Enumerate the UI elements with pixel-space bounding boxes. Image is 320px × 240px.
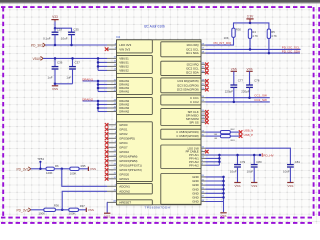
IC sub-box LDO/VIN: [117, 40, 153, 53]
pin DRAIN2 @111.5: [107, 111, 117, 113]
svg-text:VSS: VSS: [251, 184, 257, 188]
node SCL/R4: [249, 48, 252, 51]
wire R5 to SDA: [268, 39, 270, 54]
pin GND @181.0: [201, 180, 206, 182]
svg-text:VSS: VSS: [220, 214, 226, 218]
pin GPIO2: [107, 133, 117, 135]
svg-text:I2C2 SDA: I2C2 SDA: [186, 71, 199, 75]
svg-text:DRAIN2: DRAIN2: [119, 106, 129, 110]
IC sub-box ADCIN: [117, 184, 153, 194]
svg-text:ADCIN2: ADCIN2: [119, 189, 130, 193]
node PD_HV end: [259, 154, 262, 157]
pin I2C2 SDA: [201, 72, 206, 74]
wire row2 segment2: [56, 209, 69, 211]
svg-text:PP CABLE: PP CABLE: [186, 150, 199, 154]
wire VBUS to pin: [43, 57, 107, 59]
svg-text:VSS: VSS: [246, 67, 252, 71]
wire DRAIN1 b4: [98, 91, 107, 93]
svg-text:R30: R30: [236, 28, 241, 32]
top window band: [0, 0, 320, 3]
pin GND @176.9: [201, 176, 206, 178]
svg-text:C37: C37: [75, 60, 81, 64]
node DRAIN2 j1: [97, 100, 100, 103]
capacitor C80 10uF: [253, 155, 255, 165]
svg-text:GPIO10: GPIO10: [119, 150, 129, 154]
resistor R36 100K: [44, 208, 56, 211]
node HV/C79: [236, 154, 239, 157]
wire VBUS vertical bus: [97, 58, 99, 70]
IC sub-box GND: [161, 174, 201, 205]
svg-text:C USB P(GPIO18): C USB P(GPIO18): [176, 134, 198, 138]
svg-text:C78: C78: [254, 79, 260, 83]
svg-text:100K: 100K: [39, 211, 46, 215]
pin I2C1 SCL: [201, 48, 206, 50]
wire DRAIN1 b2: [98, 84, 107, 86]
outer sheet border fragments: [1, 222, 314, 224]
pin GND @189.2: [201, 188, 206, 190]
svg-text:4.7K: 4.7K: [252, 34, 258, 38]
pin GPIO3(HPD): [107, 137, 117, 139]
svg-text:PD_3V3: PD_3V3: [17, 208, 29, 212]
svg-text:GPIO3(HPD): GPIO3(HPD): [119, 136, 135, 140]
svg-text:DRAIN2: DRAIN2: [119, 103, 129, 107]
svg-text:R36: R36: [54, 203, 59, 207]
svg-text:GPIO16(PP EXT1): GPIO16(PP EXT1): [119, 163, 142, 167]
wire row1 segment2: [54, 168, 70, 170]
svg-text:DRAIN2: DRAIN2: [119, 99, 129, 103]
ground VSS below C80: [251, 182, 257, 184]
svg-text:VSS: VSS: [234, 184, 240, 188]
pin I2C3 SDA(GPIO8): [201, 89, 206, 91]
node GND @176.9: [222, 176, 225, 179]
wire GND 3: [206, 184, 224, 186]
pin PP HV2 a: [201, 161, 206, 163]
svg-text:C80: C80: [256, 160, 262, 164]
svg-text:VBUS: VBUS: [33, 57, 42, 61]
resistor R4 4.7K: [248, 29, 251, 39]
svg-text:USB_P: USB_P: [244, 133, 254, 137]
node R36/R37 junction: [61, 209, 64, 212]
ground VSS HRESET: [104, 212, 110, 214]
pin GPIO21: [107, 178, 117, 180]
svg-text:10uF: 10uF: [247, 169, 254, 173]
wire DRAIN1 bus: [97, 81, 99, 92]
svg-text:DRAIN2: DRAIN2: [119, 110, 129, 114]
node GND @193.3: [222, 192, 225, 195]
node R6/R35 junction: [61, 168, 64, 171]
IC sub-box DRAIN2: [117, 98, 153, 115]
pin I2C2 IRQ: [201, 63, 206, 65]
svg-text:0R: 0R: [214, 138, 217, 140]
svg-text:PD_HV: PD_HV: [263, 153, 274, 157]
svg-text:V33: V33: [52, 15, 58, 19]
node DRAIN2 j2: [97, 103, 100, 106]
wire GND 6: [206, 196, 224, 198]
svg-text:GND: GND: [192, 200, 198, 204]
wire C USB N: [206, 131, 221, 133]
wire HV b3: [206, 161, 220, 163]
capacitor C37: [72, 58, 74, 66]
svg-text:SPI SS: SPI SS: [189, 120, 198, 124]
resistor R6 120K: [46, 167, 54, 170]
svg-text:GPIO1: GPIO1: [119, 127, 128, 131]
svg-text:PP HV1: PP HV1: [189, 153, 199, 157]
node HV j3: [218, 161, 221, 164]
wire R30 to IRQ: [206, 37, 234, 45]
wire GND 7: [206, 201, 224, 203]
svg-text:I2C3 SDA(GPIO8): I2C3 SDA(GPIO8): [177, 88, 199, 92]
node HV j2: [218, 157, 221, 160]
node DRAIN1 j1: [97, 80, 100, 83]
svg-text:100K: 100K: [70, 171, 77, 175]
pin DRAIN1 @88.0: [107, 87, 117, 89]
pin DRAIN2 @104.5: [107, 104, 117, 106]
svg-text:1uF: 1uF: [66, 75, 71, 79]
svg-text:PD_I2C_SDA: PD_I2C_SDA: [282, 49, 300, 53]
wire R4 to SCL: [249, 39, 251, 50]
wire caps common: [55, 83, 73, 85]
wire C CC2: [206, 101, 270, 103]
pin VBUS @70.4: [107, 69, 117, 71]
node SDA/R5: [268, 52, 271, 55]
svg-text:PD_3V3: PD_3V3: [31, 44, 43, 48]
IC sub-box CC: [161, 95, 201, 105]
node GND @189.2: [222, 188, 225, 191]
pin PP HV1 b: [201, 157, 206, 159]
svg-text:10K: 10K: [224, 36, 229, 40]
wire R62 to X: [230, 131, 239, 133]
wire VBUS branch 3: [98, 65, 107, 67]
pin GPIO4: [107, 142, 117, 144]
IC sub-box SPI: [161, 109, 201, 126]
pin VBUS @66.4: [107, 65, 117, 67]
pin GND @201.5: [201, 201, 206, 203]
svg-text:D4: D4: [116, 35, 120, 39]
IC sub-box C USB: [161, 129, 201, 139]
wire PP HV main: [206, 154, 261, 156]
pin GND @185.1: [201, 184, 206, 186]
capacitor C77 220pF: [233, 71, 235, 85]
pin GPIO1: [107, 128, 117, 130]
pin GPIO17(PP EXT2): [107, 169, 117, 171]
pin I2C1 IRQ: [201, 44, 206, 46]
svg-text:10uF: 10uF: [230, 169, 237, 173]
svg-text:VSS: VSS: [104, 215, 110, 219]
svg-text:VBUS2: VBUS2: [119, 69, 129, 73]
wire DRAIN2 b3: [98, 107, 107, 109]
node GND @181.0: [222, 180, 225, 183]
wire HRESET to VSS: [106, 202, 108, 213]
svg-text:C CC2: C CC2: [190, 100, 199, 104]
pin PP HV1 a: [201, 154, 206, 156]
IC sub-box PP: [161, 145, 201, 169]
node CC1/C78: [248, 96, 251, 99]
wire GND 4: [206, 188, 224, 190]
pin I2C3 SCL(GPIO6): [201, 84, 206, 86]
wire row2 segment1: [31, 209, 44, 211]
wire HV b4: [206, 164, 220, 166]
wire GND 1: [206, 176, 224, 178]
node C18 bottom: [54, 44, 57, 47]
pin VBUS @62.4: [107, 61, 117, 63]
svg-text:GPIO7: GPIO7: [119, 145, 128, 149]
pin SPI MOSI: [201, 118, 206, 120]
pin GND @193.3: [201, 192, 206, 194]
no-connect X USB_P: [239, 134, 243, 138]
pin DRAIN1 @84.5: [107, 84, 117, 86]
pin GPIO0: [107, 124, 117, 126]
resistor R35 100K: [70, 167, 79, 170]
wire VBUS branch 4: [98, 69, 107, 71]
capacitor C36: [54, 58, 56, 66]
svg-text:TPS65987DDH: TPS65987DDH: [145, 206, 171, 210]
capacitor C78 220pF: [249, 71, 251, 85]
node VBUS/C37: [71, 57, 74, 60]
svg-text:100K: 100K: [69, 212, 76, 216]
svg-text:0.1uF: 0.1uF: [43, 36, 51, 40]
svg-text:PP HV1: PP HV1: [189, 157, 199, 161]
pin SPI CLK: [201, 111, 206, 113]
svg-text:GPIO21: GPIO21: [119, 177, 129, 181]
svg-text:PD_INT_IRQ: PD_INT_IRQ: [214, 41, 232, 45]
node VBUS j3: [97, 65, 100, 68]
svg-text:R6: R6: [55, 164, 59, 168]
pin GPIO14(PWM): [107, 155, 117, 157]
wire PD_3V3 to LDO pin: [45, 44, 107, 46]
ground VSS row1: [87, 167, 89, 171]
wire DRAIN2 top: [83, 100, 108, 102]
node HV/C80: [253, 154, 256, 157]
svg-text:1uF: 1uF: [48, 75, 53, 79]
wire row2 to VSS: [79, 209, 87, 211]
wire GND bus vertical: [223, 177, 225, 212]
svg-text:GPIO17(PP EXT2): GPIO17(PP EXT2): [119, 168, 142, 172]
svg-text:10uF: 10uF: [283, 169, 290, 173]
svg-text:PP HV2: PP HV2: [189, 160, 199, 164]
wire row1 to VSS: [79, 168, 88, 170]
resistor R5 4.7K: [267, 29, 270, 39]
svg-text:LDO 1V8: LDO 1V8: [188, 146, 200, 150]
svg-text:VIN 3V3: VIN 3V3: [119, 47, 130, 51]
node C35 bottom: [70, 44, 73, 47]
svg-text:HRESET: HRESET: [119, 201, 131, 205]
pin I2C3 IRQ(GPIO5): [201, 80, 206, 82]
wire R63 to X: [230, 135, 239, 137]
svg-text:DRAIN1: DRAIN1: [119, 83, 129, 87]
svg-text:GPIO2: GPIO2: [119, 132, 128, 136]
capacitor C79 10uF: [237, 155, 239, 165]
svg-text:C18: C18: [57, 27, 63, 31]
ground VSS below C36: [54, 84, 56, 86]
svg-text:VSS: VSS: [231, 67, 237, 71]
svg-text:R37: R37: [80, 204, 85, 208]
svg-text:GPIO20: GPIO20: [119, 172, 129, 176]
node GND @197.4: [222, 196, 225, 199]
wire PP HV bus: [218, 155, 220, 165]
svg-text:DRAIN1: DRAIN1: [119, 86, 129, 90]
pin C USB P(GPIO18): [201, 135, 206, 137]
wire C USB P: [206, 135, 221, 137]
svg-text:DRAIN1: DRAIN1: [119, 90, 129, 94]
svg-text:4.7K: 4.7K: [271, 34, 277, 38]
wire DRAIN1 top: [83, 80, 108, 82]
IC sub-box GPIO: [117, 122, 153, 182]
net label PD_HV: [261, 153, 263, 157]
svg-text:DRAIN1: DRAIN1: [119, 79, 129, 83]
wire GND 2: [206, 180, 224, 182]
pin GPIO7: [107, 146, 117, 148]
svg-text:VSS: VSS: [287, 184, 293, 188]
wire C CC1: [206, 97, 270, 99]
pin ADCIN2: [107, 190, 117, 192]
no-connect X USB_N: [239, 130, 243, 134]
wire row1 segment1: [31, 168, 46, 170]
IC sub-box I2C3: [161, 78, 201, 93]
svg-text:VSS: VSS: [52, 87, 58, 91]
wire DRAIN2 b2: [98, 104, 107, 106]
svg-text:GPIO0: GPIO0: [119, 123, 128, 127]
svg-text:0R: 0R: [214, 134, 217, 136]
wire 3.3V rail: [234, 23, 269, 29]
wire V33 stem: [54, 22, 56, 29]
node VBUS/C36: [54, 57, 57, 60]
wire I2C1 SDA: [206, 52, 301, 54]
svg-text:C77: C77: [238, 79, 244, 83]
node DRAIN2 j3: [97, 107, 100, 110]
ground VSS below C81: [287, 182, 293, 184]
pin LDO 3V3: [107, 44, 117, 46]
svg-text:R4: R4: [252, 30, 256, 34]
pin DRAIN2 @101.0: [107, 100, 117, 102]
op-amp U D4 IC body TPS65987DDH: [117, 40, 202, 205]
svg-text:I2C Addr 010b: I2C Addr 010b: [144, 25, 165, 29]
pin DRAIN2 @108.0: [107, 107, 117, 109]
node HV j1: [218, 154, 221, 157]
svg-text:VSS: VSS: [90, 167, 96, 171]
node DRAIN1 j2: [97, 83, 100, 86]
IC sub-box I2C1: [161, 42, 201, 57]
pin VIN 3V3: [107, 48, 117, 50]
ground VSS GND bus: [220, 212, 226, 214]
svg-text:PD_3V3: PD_3V3: [17, 167, 29, 171]
wire GND 5: [206, 192, 224, 194]
wire DRAIN2 bus: [97, 101, 99, 112]
node VBUS j2: [97, 61, 100, 64]
svg-text:C79: C79: [240, 160, 246, 164]
sheet border dashed purple: [2, 7, 4, 218]
pin C USB N(GPIO19): [201, 131, 206, 133]
svg-text:C36: C36: [57, 60, 63, 64]
pin SPI SS: [201, 121, 206, 123]
IC sub-box HRESET: [117, 200, 153, 205]
resistor R62 0R: [220, 131, 230, 134]
wire DRAIN1 b3: [98, 87, 107, 89]
pin PP HV2 b: [201, 164, 206, 166]
pin ADCIN1: [107, 185, 117, 187]
node VBUS j1: [97, 57, 100, 60]
pin GPIO10: [107, 151, 117, 153]
capacitor C81 10uF: [287, 164, 294, 166]
wire DRAIN2 b4: [98, 111, 107, 113]
svg-text:I2C3 SCL(GPIO6): I2C3 SCL(GPIO6): [177, 83, 199, 87]
pin DRAIN1 @91.5: [107, 91, 117, 93]
ground VSS row2: [85, 208, 87, 212]
pin LDO 1V8: [201, 147, 206, 149]
IC sub-box DRAIN1: [117, 78, 153, 95]
wire HV b2: [206, 157, 220, 159]
pin I2C1 SDA: [201, 52, 206, 54]
capacitor C35: [68, 31, 75, 33]
node DRAIN1 j3: [97, 87, 100, 90]
pin DRAIN1 @81.0: [107, 80, 117, 82]
svg-text:GPIO15(PWM): GPIO15(PWM): [119, 159, 137, 163]
capacitor C18: [54, 28, 56, 32]
node rail/R4: [249, 22, 252, 25]
resistor R30 10K: [232, 28, 235, 37]
svg-text:R35: R35: [81, 164, 86, 168]
IC sub-box VBUS: [117, 55, 153, 73]
svg-text:120K: 120K: [46, 171, 53, 175]
pin HRESET: [107, 201, 117, 203]
svg-text:3.3V: 3.3V: [247, 14, 254, 18]
ground VSS below C79: [234, 182, 240, 184]
node GND @185.1: [222, 184, 225, 187]
pin GPIO16(PP EXT1): [107, 164, 117, 166]
node V33/C18 junction: [54, 27, 57, 30]
wire LDO 1V8 to C81: [206, 148, 291, 164]
node caps common: [54, 83, 57, 86]
wire VBUS branch 2: [98, 61, 107, 63]
svg-text:GPIO4: GPIO4: [119, 141, 128, 145]
svg-text:R5: R5: [271, 30, 275, 34]
svg-text:CC2_SW: CC2_SW: [254, 98, 267, 102]
svg-text:I2C1 SDA: I2C1 SDA: [186, 51, 199, 55]
svg-text:220pF: 220pF: [225, 90, 233, 94]
IC sub-box I2C2: [161, 61, 201, 75]
svg-text:10uF: 10uF: [61, 36, 68, 40]
pin GND @197.4: [201, 196, 206, 198]
svg-text:PP HV2: PP HV2: [189, 163, 199, 167]
svg-text:ADCIN1: ADCIN1: [119, 184, 130, 188]
wire ADCIN2 route: [62, 191, 107, 210]
pin C CC2: [201, 101, 206, 103]
resistor R63 0R: [220, 135, 230, 138]
pin I2C2 SCL: [201, 67, 206, 69]
pin PP CABLE: [201, 151, 206, 153]
resistor R37 100K: [69, 208, 79, 211]
svg-text:VSS: VSS: [88, 208, 94, 212]
node CC2/C77: [233, 101, 236, 104]
wire ADCIN1 route: [62, 169, 107, 187]
svg-text:GPIO14(PWM): GPIO14(PWM): [119, 154, 137, 158]
wire I2C1 SCL: [206, 48, 301, 50]
wire V33 rail to C35: [55, 28, 72, 32]
svg-text:C35: C35: [73, 27, 79, 31]
svg-text:I2C3 IRQ(GPIO5): I2C3 IRQ(GPIO5): [177, 79, 198, 83]
svg-text:C USB N(GPIO19): C USB N(GPIO19): [176, 130, 199, 134]
pin SPI MISO: [201, 114, 206, 116]
pin GPIO15(PWM): [107, 160, 117, 162]
pin GPIO20: [107, 173, 117, 175]
pin VBUS @58.4: [107, 57, 117, 59]
svg-text:C81: C81: [295, 160, 301, 164]
svg-text:220pF: 220pF: [241, 90, 249, 94]
pin C CC1: [201, 97, 206, 99]
svg-text:TP54: TP54: [37, 157, 44, 161]
